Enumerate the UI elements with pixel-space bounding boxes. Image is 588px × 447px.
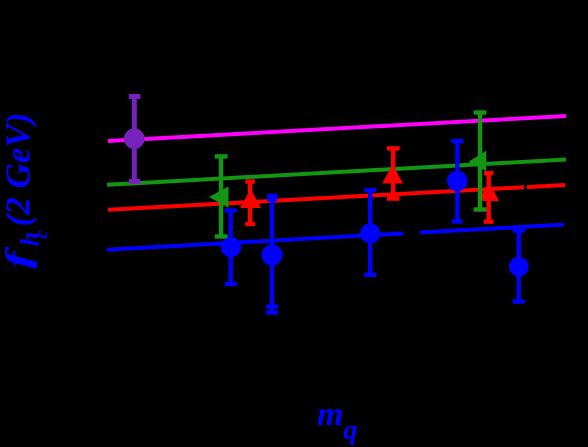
svg-text:c: c xyxy=(32,230,53,239)
svg-text:(2 GeV): (2 GeV) xyxy=(0,113,38,227)
